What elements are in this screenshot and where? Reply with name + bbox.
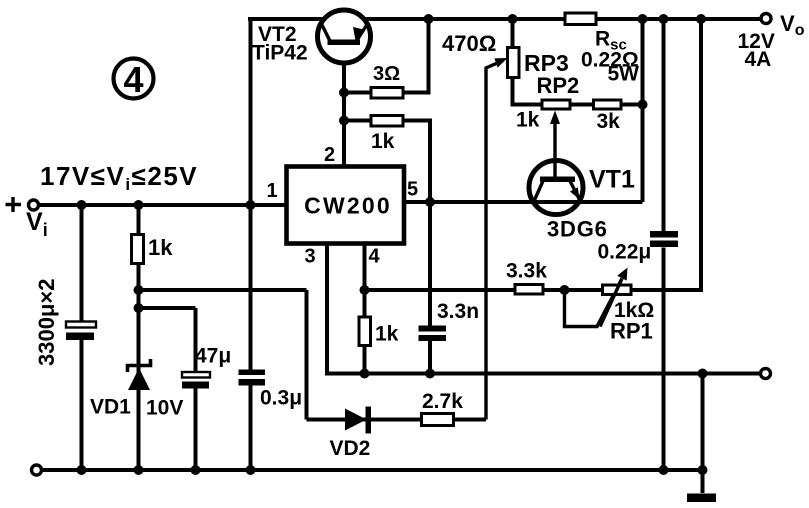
svg-text:4A: 4A (745, 48, 772, 71)
svg-text:3300μ×2: 3300μ×2 (34, 279, 59, 366)
svg-text:3: 3 (305, 246, 316, 268)
svg-text:CW200: CW200 (304, 193, 392, 219)
svg-text:0.3μ: 0.3μ (260, 387, 302, 410)
svg-text:3.3n: 3.3n (437, 300, 479, 323)
svg-text:RP1: RP1 (610, 319, 653, 344)
svg-text:TiP42: TiP42 (252, 42, 308, 65)
svg-text:0.22μ: 0.22μ (598, 241, 652, 264)
svg-text:5: 5 (407, 179, 418, 201)
svg-text:5W: 5W (608, 63, 640, 86)
svg-text:2: 2 (324, 144, 335, 166)
svg-text:4: 4 (123, 59, 143, 100)
svg-text:47μ: 47μ (195, 345, 231, 368)
svg-text:10V: 10V (146, 397, 183, 420)
svg-text:4: 4 (369, 246, 381, 268)
svg-text:17V≤Vi≤25V: 17V≤Vi≤25V (40, 161, 198, 194)
svg-text:VT1: VT1 (589, 166, 635, 194)
svg-text:3k: 3k (597, 110, 621, 133)
svg-text:1k: 1k (516, 109, 540, 132)
svg-text:RP2: RP2 (537, 73, 580, 98)
svg-text:2.7k: 2.7k (422, 390, 463, 413)
svg-text:VD1: VD1 (90, 396, 131, 419)
svg-text:470Ω: 470Ω (442, 31, 496, 56)
svg-text:3DG6: 3DG6 (547, 217, 608, 242)
svg-text:1k: 1k (375, 323, 399, 346)
svg-text:VD2: VD2 (330, 437, 371, 460)
svg-text:1: 1 (267, 180, 278, 202)
svg-text:1k: 1k (148, 235, 173, 260)
svg-text:1k: 1k (371, 130, 395, 153)
svg-text:3.3k: 3.3k (506, 260, 547, 283)
svg-text:3Ω: 3Ω (373, 63, 400, 85)
